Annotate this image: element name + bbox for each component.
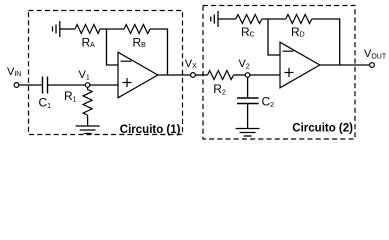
capacitor C2 — [237, 98, 259, 104]
wire ground to RA — [60, 28, 75, 30]
wire R2 to node V2 — [234, 74, 246, 76]
resistor RB — [124, 25, 150, 34]
dashed box Circuito (1) — [29, 11, 183, 135]
node V2 — [245, 73, 250, 78]
svg-text:Circuito (2): Circuito (2) — [292, 123, 353, 135]
capacitor C1 — [43, 77, 48, 94]
terminal VOUT — [370, 63, 375, 68]
ground under R1 — [76, 126, 100, 134]
ground (rotated) circuit 1 top-left — [53, 21, 60, 37]
junction feedback wire down to op-amp 2 inverting input — [268, 19, 280, 55]
resistor R2 — [208, 71, 234, 80]
op-amp U2 — [280, 42, 320, 88]
node VX — [191, 73, 196, 78]
wire RA to junction — [100, 28, 124, 30]
wire C1 to node V1 — [48, 84, 86, 86]
wire VIN to C1 — [19, 84, 43, 86]
resistor RC — [236, 15, 262, 24]
wire C2 to ground — [247, 104, 249, 129]
op-amp U1 — [118, 52, 158, 98]
wire op-amp2 output to VOUT — [320, 64, 370, 66]
wire RC to junction — [262, 18, 286, 20]
node V1 — [85, 83, 90, 88]
wire RB to output, down right side — [150, 29, 168, 75]
dashed box Circuito (2) — [203, 6, 355, 140]
junction feedback wire down to op-amp 1 inverting input — [107, 29, 119, 65]
wire R1 to ground — [87, 118, 89, 126]
wire RD to output, down right side — [312, 19, 340, 65]
wire V2 to op-amp 2 + input — [250, 74, 280, 76]
resistor RA — [75, 25, 100, 34]
resistor RD — [286, 15, 312, 24]
terminal VIN — [14, 83, 19, 88]
wire V1 to op-amp + input — [90, 84, 118, 86]
resistor R1 — [83, 88, 92, 118]
wire V2 down to C2 — [247, 77, 249, 98]
ground (rotated) circuit 2 top-left — [211, 11, 218, 27]
wire ground to RC — [218, 18, 236, 20]
svg-text:Circuito (1): Circuito (1) — [120, 124, 181, 136]
wire VX to R2 — [195, 74, 207, 76]
wire op-amp1 output to VX — [158, 74, 191, 76]
ground under C2 — [236, 129, 260, 137]
